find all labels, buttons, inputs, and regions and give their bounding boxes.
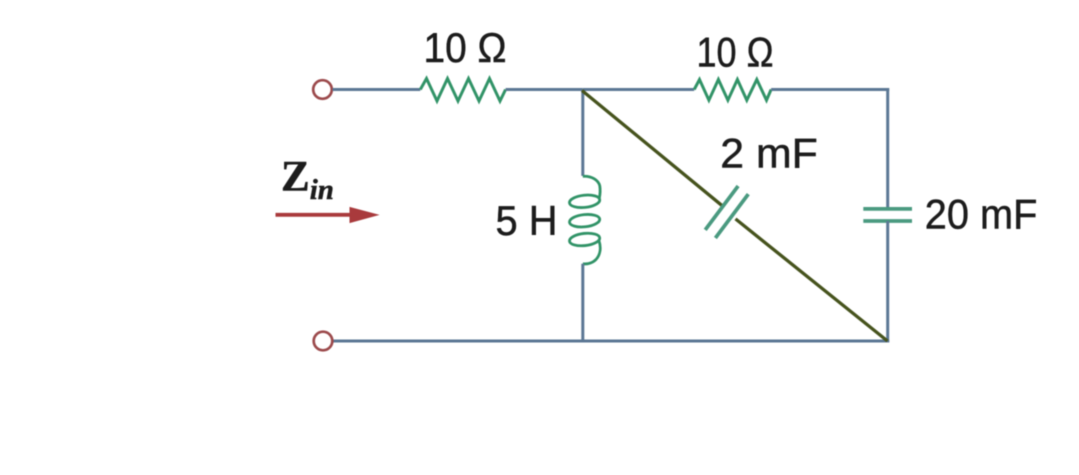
svg-text:Zin: Zin [281, 153, 334, 205]
capacitor C1 2mF plates [705, 186, 738, 230]
wire bottom [334, 340, 890, 343]
wire inductor to bottom [581, 264, 584, 341]
wire node A down to inductor [581, 90, 584, 176]
svg-text:5 H: 5 H [496, 197, 558, 244]
svg-text:20 mF: 20 mF [925, 191, 1038, 238]
wire right side upper [886, 88, 889, 210]
capacitor C2 20mF plates [863, 207, 912, 211]
terminal top-left [313, 80, 332, 99]
wire top from terminal to R1 [333, 88, 421, 91]
resistor R2 zigzag [694, 80, 771, 101]
node A junction to R2 wire [583, 88, 694, 91]
diagonal wire upper segment [582, 91, 724, 207]
terminal bottom-left [314, 332, 333, 351]
svg-text:2 mF: 2 mF [720, 130, 818, 177]
wire R2 to top-right corner [771, 88, 889, 91]
svg-text:10 Ω: 10 Ω [424, 24, 507, 71]
arrow Zin direction [276, 213, 352, 217]
wire between R1 and node A [506, 88, 583, 91]
diagonal wire lower segment [736, 219, 888, 341]
svg-text:10 Ω: 10 Ω [697, 29, 774, 76]
wire right side lower [886, 221, 889, 343]
resistor R1 zigzag [420, 79, 505, 102]
inductor L1 coil [569, 176, 601, 264]
